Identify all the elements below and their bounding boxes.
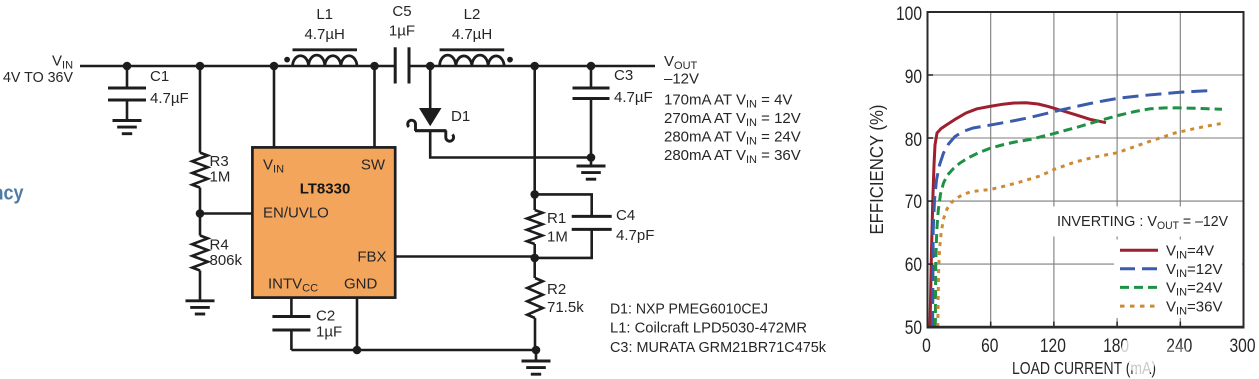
svg-text:ncy: ncy bbox=[0, 182, 24, 205]
chart legend background bbox=[1050, 207, 1242, 319]
wire INTVCC pin bbox=[290, 298, 293, 317]
wire FBX pin bbox=[395, 255, 535, 258]
svg-text:EFFICIENCY (%): EFFICIENCY (%) bbox=[867, 105, 887, 235]
svg-text:170mA AT VIN = 4V: 170mA AT VIN = 4V bbox=[664, 92, 792, 111]
junction node R1 bottom / R2 / FBX bbox=[530, 254, 539, 263]
svg-text:4.7µH: 4.7µH bbox=[305, 26, 345, 43]
svg-text:280mA AT VIN = 24V: 280mA AT VIN = 24V bbox=[664, 129, 801, 148]
svg-text:LT8330: LT8330 bbox=[300, 181, 351, 198]
resistor R1 1M bbox=[527, 194, 568, 258]
junction node EN/UVLO divider bbox=[196, 209, 205, 218]
junction node GND pin / bottom net bbox=[353, 346, 362, 355]
junction node R1 top / C4 bbox=[530, 190, 539, 199]
svg-text:4.7µH: 4.7µH bbox=[452, 26, 492, 43]
svg-text:0: 0 bbox=[922, 336, 931, 357]
chart x-axis tick labels bbox=[922, 336, 1255, 357]
junction node C3 / D1 return bbox=[587, 153, 596, 162]
capacitor C5 1uF bbox=[389, 3, 415, 84]
svg-text:C5: C5 bbox=[392, 3, 411, 20]
svg-text:C2: C2 bbox=[316, 308, 335, 325]
svg-text:90: 90 bbox=[905, 67, 922, 88]
junction node R2 / bottom net bbox=[532, 346, 541, 355]
svg-text:270mA AT VIN = 12V: 270mA AT VIN = 12V bbox=[664, 110, 801, 129]
svg-text:GND: GND bbox=[344, 276, 378, 293]
node VIN input terminal label bbox=[3, 53, 73, 87]
inductor L2 4.7uH bbox=[440, 6, 513, 66]
svg-text:C3: C3 bbox=[614, 67, 633, 84]
svg-text:R1: R1 bbox=[547, 210, 566, 227]
svg-text:100: 100 bbox=[896, 4, 922, 25]
svg-text:D1: NXP PMEG6010CEJ: D1: NXP PMEG6010CEJ bbox=[610, 301, 768, 318]
chart axis ticks bbox=[929, 75, 1181, 326]
svg-text:VIN=12V: VIN=12V bbox=[1166, 261, 1222, 280]
inductor L1 4.7uH bbox=[284, 6, 357, 66]
svg-text:R4: R4 bbox=[210, 237, 229, 254]
svg-text:4V TO 36V: 4V TO 36V bbox=[3, 69, 73, 86]
capacitor C4 4.7pF bbox=[535, 194, 655, 258]
wire GND pin bbox=[356, 298, 359, 350]
wire VOUT to feedback divider bbox=[533, 66, 536, 194]
curve VIN=36V orange dotted bbox=[938, 124, 1221, 327]
svg-text:70: 70 bbox=[905, 192, 922, 213]
svg-text:C3: MURATA GRM21BR71C475k: C3: MURATA GRM21BR71C475k bbox=[610, 339, 826, 356]
junction node at VIN pin bbox=[270, 62, 279, 71]
resistor R2 71.5k bbox=[527, 258, 584, 350]
IC U1 LT8330 bbox=[252, 147, 395, 297]
svg-text:120: 120 bbox=[1040, 336, 1066, 357]
svg-text:C1: C1 bbox=[150, 68, 169, 85]
svg-text:50: 50 bbox=[905, 318, 922, 339]
svg-text:60: 60 bbox=[981, 336, 998, 357]
curve VIN=24V green dashed bbox=[935, 108, 1222, 327]
junction node at D1 / C5 / L2 bbox=[426, 62, 435, 71]
svg-text:L1: Coilcraft LPD5030-472MR: L1: Coilcraft LPD5030-472MR bbox=[610, 320, 807, 337]
curve VIN=12V blue dashed bbox=[933, 90, 1214, 327]
wire bottom ground net bbox=[291, 349, 536, 352]
svg-text:–12V: –12V bbox=[664, 71, 699, 88]
junction node at SW pin bbox=[370, 62, 379, 71]
svg-text:VIN=24V: VIN=24V bbox=[1166, 280, 1222, 299]
svg-text:4.7µF: 4.7µF bbox=[614, 89, 653, 106]
junction node at C3 bbox=[587, 62, 596, 71]
svg-text:L1: L1 bbox=[316, 6, 333, 23]
legend entry VIN=4V bbox=[1120, 242, 1214, 261]
svg-text:300: 300 bbox=[1230, 336, 1256, 357]
svg-text:EN/UVLO: EN/UVLO bbox=[263, 205, 329, 222]
wire SW pin bbox=[373, 66, 376, 147]
svg-text:80: 80 bbox=[905, 130, 922, 151]
junction node at R3 bbox=[196, 62, 205, 71]
svg-text:280mA AT VIN = 36V: 280mA AT VIN = 36V bbox=[664, 147, 801, 166]
svg-text:L2: L2 bbox=[464, 6, 481, 23]
node VOUT output terminal label bbox=[664, 53, 801, 166]
watermark white smudge bbox=[1121, 337, 1189, 375]
svg-text:VIN=4V: VIN=4V bbox=[1166, 242, 1214, 261]
ground at R4 bbox=[186, 301, 215, 314]
svg-text:C4: C4 bbox=[616, 207, 635, 224]
note component part numbers bbox=[610, 301, 826, 357]
chart y-axis tick labels bbox=[896, 4, 922, 339]
wire top input rail bbox=[80, 65, 395, 68]
curve VIN=4V red solid bbox=[930, 103, 1106, 327]
ground at C1 bbox=[113, 121, 142, 134]
ground at C3 bbox=[577, 158, 606, 180]
resistor R3 1M bbox=[192, 66, 230, 214]
svg-text:60: 60 bbox=[905, 255, 922, 276]
svg-text:SW: SW bbox=[361, 157, 386, 174]
svg-text:D1: D1 bbox=[451, 108, 470, 125]
svg-text:1µF: 1µF bbox=[316, 324, 342, 341]
junction node at C1 bbox=[123, 62, 132, 71]
svg-text:INVERTING : VOUT = –12V: INVERTING : VOUT = –12V bbox=[1057, 213, 1228, 232]
capacitor C3 4.7uF bbox=[573, 66, 653, 158]
svg-text:FBX: FBX bbox=[357, 249, 386, 266]
svg-text:R2: R2 bbox=[547, 281, 566, 298]
wire D1 cathode to ground node bbox=[430, 131, 591, 158]
wire top output rail bbox=[409, 65, 655, 68]
svg-text:4.7pF: 4.7pF bbox=[616, 227, 654, 244]
svg-text:VIN=36V: VIN=36V bbox=[1166, 298, 1222, 317]
capacitor C1 4.7uF bbox=[108, 66, 189, 121]
svg-text:71.5k: 71.5k bbox=[547, 299, 584, 316]
chart plot border bbox=[927, 12, 1245, 327]
ground at bottom net bbox=[522, 350, 551, 374]
legend entry VIN=12V bbox=[1120, 261, 1222, 280]
diode D1 schottky bbox=[408, 66, 470, 141]
svg-text:1µF: 1µF bbox=[389, 23, 415, 40]
junction node at R1 branch bbox=[530, 62, 539, 71]
wire VIN pin bbox=[273, 66, 276, 147]
svg-text:4.7µF: 4.7µF bbox=[150, 90, 189, 107]
capacitor C2 1uF bbox=[272, 308, 342, 351]
svg-text:806k: 806k bbox=[210, 252, 243, 269]
svg-text:1M: 1M bbox=[547, 229, 568, 246]
chart gridlines bbox=[928, 12, 1244, 327]
svg-text:R3: R3 bbox=[210, 153, 229, 170]
legend entry VIN=36V bbox=[1120, 298, 1222, 317]
resistor R4 806k bbox=[192, 214, 242, 301]
svg-text:1M: 1M bbox=[210, 169, 231, 186]
legend entry VIN=24V bbox=[1120, 280, 1222, 299]
wire EN/UVLO pin bbox=[200, 212, 252, 215]
